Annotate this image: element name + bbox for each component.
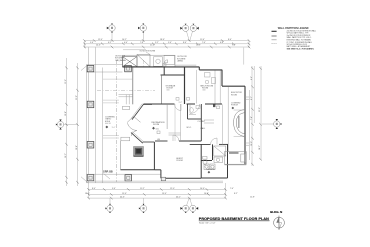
legend row 4 sample [272, 43, 277, 45]
dimension columns right [244, 48, 261, 167]
hall walls near bath [180, 104, 182, 141]
dimension rows top [85, 41, 250, 50]
porch column 6 (top second) [125, 65, 132, 71]
corridor wall with door arcs [144, 103, 223, 105]
dim text specks bottom rows [85, 188, 255, 199]
bottom wall left step [155, 170, 202, 178]
entry door swing arc [127, 123, 137, 136]
hall door arc [173, 135, 179, 141]
hall east wall [222, 104, 224, 144]
svg-text:BLDG. N: BLDG. N [270, 210, 282, 214]
mech room walls [196, 70, 220, 104]
hall stub [174, 104, 176, 141]
alcove vertical label speck [238, 116, 239, 128]
dimension columns left [67, 58, 78, 186]
grid bubble top A [107, 24, 115, 42]
svg-text:Scale: 1/4" = 1'-0": Scale: 1/4" = 1'-0" [199, 223, 216, 225]
kitchen counter appliances [154, 56, 175, 67]
fireplace mass [134, 147, 144, 157]
door tags [157, 63, 220, 133]
wic shelf lines [169, 120, 215, 135]
dim text specks top rows [90, 39, 236, 47]
porch column 3 [87, 142, 94, 149]
dim text left column rotated [65, 79, 78, 158]
grid bubble bottom B [139, 198, 147, 213]
door arc 1 [175, 104, 182, 111]
powder room walls [155, 104, 228, 144]
wing label [229, 152, 239, 154]
terrace bottom edge double line [86, 174, 223, 183]
interior wall vertical center [184, 68, 186, 105]
svg-text:BATT INSUL. AT BASEMENT: BATT INSUL. AT BASEMENT [287, 45, 312, 48]
bubble number specks [60, 27, 278, 210]
west wall upper [132, 68, 134, 105]
grid bubble pair top C/D [180, 24, 198, 41]
closet door arc [211, 138, 218, 144]
right-bottom wing room [225, 152, 247, 165]
bottom wall pilaster [161, 177, 165, 181]
shower [214, 146, 226, 156]
entry step wall [161, 67, 185, 75]
porch column 1 (top-left) [87, 65, 94, 71]
dimension ticks bottom [87, 188, 227, 199]
powder fixtures [189, 106, 200, 115]
grid bubble top B [138, 24, 146, 42]
porch edge lines left colonnade [81, 47, 123, 183]
porch column 5 (bottom mid) [125, 175, 132, 181]
compass north arrow [274, 216, 285, 230]
svg-text:SEE SHEET A-0.1 FOR ABBREV.: SEE SHEET A-0.1 FOR ABBREV. [287, 48, 315, 51]
door arc 2 [190, 104, 200, 114]
entry door leaf triangle [127, 116, 141, 122]
bay window boxes [121, 106, 130, 140]
west wall window [119, 95, 133, 105]
porch column 2 [87, 101, 94, 108]
hearth room walls [121, 142, 155, 170]
legend row 2 sample [272, 36, 277, 37]
svg-text:PROPOSED BASEMENT FLOOR PLAN: PROPOSED BASEMENT FLOOR PLAN [199, 217, 269, 221]
hatched box X (stair/skylight) [123, 57, 138, 67]
dim text right column rotated [251, 76, 261, 150]
dimension ticks top [83, 39, 250, 48]
toilet [203, 157, 208, 165]
diagonal box [137, 55, 150, 67]
right band inner line [228, 87, 249, 161]
grid bubble pair bottom C/D [180, 198, 198, 213]
angled entry: lower diagonal wall [131, 133, 154, 144]
svg-text:WALL PARTITION LEGEND: WALL PARTITION LEGEND [278, 27, 309, 30]
hall wall [166, 104, 168, 129]
patio step lines at bay [103, 79, 133, 138]
west wall lower segment [120, 141, 122, 170]
grid centerline B dashed [142, 60, 144, 67]
small door dark spot [213, 105, 215, 108]
mech equipment [205, 73, 216, 84]
grid centerline horizontal porch dashed [97, 90, 155, 92]
grid bubble left [56, 120, 77, 130]
east wall windows [245, 97, 249, 145]
laundry appliances [204, 164, 215, 170]
porch column 4 (bottom-left) [87, 175, 94, 181]
outdoor kitchen band outline [123, 55, 176, 67]
bath block walls [201, 144, 227, 178]
main top exterior wall [123, 65, 223, 70]
grid centerline A dashed [116, 60, 118, 182]
storage west wall [161, 75, 163, 104]
legend row 3 sample [272, 39, 277, 41]
title underline [199, 220, 270, 222]
grid bubble bottom A [105, 198, 113, 213]
dimension rows bottom [89, 183, 226, 198]
legend row 1 sample [272, 30, 277, 32]
right curved alcove [234, 110, 245, 137]
bath sink [214, 157, 223, 163]
grid bubble right [262, 119, 281, 129]
top-right wall step down [222, 70, 245, 164]
leader GRP-BB [104, 174, 111, 180]
angled entry: upper diagonal wall [132, 104, 152, 119]
